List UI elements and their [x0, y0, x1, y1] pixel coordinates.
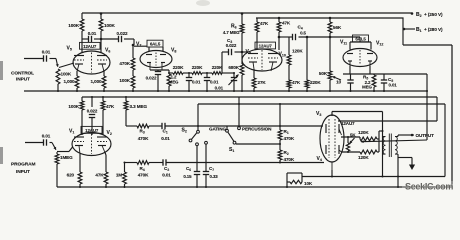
- svg-text:SeekIC.com: SeekIC.com: [405, 182, 453, 192]
- wire secondary top output: [398, 135, 414, 137]
- svg-text:0.01: 0.01: [88, 31, 97, 36]
- capacitor 0.022 program: [89, 97, 95, 135]
- junction bus-307: [306, 90, 308, 92]
- wire S1 out: [236, 143, 280, 145]
- svg-text:0.022: 0.022: [117, 31, 129, 36]
- svg-text:47K: 47K: [95, 173, 104, 178]
- node B1 tap: [403, 28, 415, 31]
- svg-text:680K: 680K: [228, 65, 239, 70]
- node 5K bottom: [347, 151, 349, 153]
- tube 12AU7 V5 V6 envelope: [73, 51, 110, 74]
- wire S2 drop: [197, 104, 199, 130]
- wire V11V12 cathodes: [343, 66, 427, 74]
- svg-text:47K: 47K: [106, 104, 115, 109]
- label B2 supply: [416, 12, 443, 18]
- capacitor 0.01 shunt2: [204, 73, 210, 91]
- svg-text:100K: 100K: [61, 72, 72, 77]
- tube 12AU7 V1 V2 envelope: [72, 133, 111, 156]
- junction bus-384: [383, 90, 385, 92]
- capacitor C5 0.01: [381, 74, 387, 91]
- label 0.01 trimmer: [215, 86, 224, 91]
- label 12AU7 tube1 box: [80, 42, 101, 49]
- label V10: [279, 52, 286, 58]
- capacitor 0.022 coupling: [101, 31, 134, 42]
- resistor R6 4.7MEG: [240, 13, 244, 64]
- svg-text:INPUT: INPUT: [16, 169, 30, 175]
- label 5K: [350, 133, 356, 138]
- junction bus-254: [253, 90, 255, 92]
- label 47K-V10: [282, 21, 291, 26]
- tube V11V12 internals: [347, 50, 373, 66]
- label V3: [316, 111, 321, 117]
- svg-text:+ (280 V): + (280 V): [424, 27, 443, 32]
- svg-text:0.01: 0.01: [389, 83, 398, 88]
- wire R4 row: [125, 162, 138, 164]
- resistor R4 470K: [137, 161, 163, 165]
- label R1: [284, 129, 295, 141]
- label 0.022 program: [87, 109, 98, 114]
- transformer primary winding: [383, 137, 386, 155]
- svg-text:+ (250 V): + (250 V): [424, 12, 443, 17]
- junction bus-207: [206, 90, 208, 92]
- svg-text:0.01: 0.01: [210, 80, 219, 85]
- wire V7V8 plates: [134, 46, 163, 51]
- capacitor 0.01 shunt1: [186, 73, 192, 91]
- switch S1 lever: [228, 132, 234, 141]
- node sec-176: [397, 175, 399, 177]
- svg-text:120K: 120K: [358, 155, 369, 160]
- label 6AL5 tube2 box: [147, 40, 163, 47]
- resistor 47K plate V2: [101, 97, 105, 135]
- junction bus-374: [373, 90, 375, 92]
- contact S1 bottom: [233, 141, 236, 144]
- resistor 100K plate V1: [80, 97, 84, 135]
- svg-text:1,000: 1,000: [64, 79, 76, 84]
- wire feedback row: [302, 176, 445, 178]
- svg-text:47K: 47K: [292, 80, 301, 85]
- label V12: [376, 41, 383, 47]
- label R3: [138, 129, 149, 141]
- label 100K divider: [119, 78, 130, 83]
- label 220K lower: [310, 80, 321, 85]
- label 120K bottom: [358, 155, 369, 160]
- resistor 120K V10: [287, 37, 291, 80]
- wire control input: [24, 58, 44, 60]
- ground: [409, 165, 415, 171]
- resistor 47K lower: [287, 80, 291, 91]
- label 120K top: [358, 130, 369, 135]
- potentiometer 100K control: [56, 59, 60, 92]
- resistor 3.3MEG: [124, 97, 128, 126]
- node fb-332: [331, 175, 333, 177]
- label 47K lower: [292, 80, 301, 85]
- label 1M: [116, 173, 122, 178]
- svg-text:MEG: MEG: [169, 80, 179, 85]
- resistor 120K bottom: [360, 150, 379, 154]
- contact C6 top: [196, 143, 199, 146]
- wire bottom ground bus: [57, 186, 452, 188]
- svg-text:47K: 47K: [282, 21, 291, 26]
- node 10K-bus: [286, 186, 288, 188]
- wire ground branch: [398, 158, 412, 165]
- node C4-330: [329, 36, 332, 39]
- node 470K tap: [132, 44, 135, 47]
- switch S2 top contact: [197, 130, 200, 133]
- tube V5V6 internals: [74, 53, 107, 73]
- junction bus-242: [241, 90, 243, 92]
- label OUTPUT: [416, 133, 435, 138]
- svg-text:100K: 100K: [104, 23, 116, 28]
- wire 120K junction: [379, 131, 383, 152]
- wire program input: [25, 142, 44, 144]
- svg-text:0.022: 0.022: [146, 76, 157, 81]
- resistor 100K plate V5: [80, 13, 84, 53]
- label 50K: [319, 71, 328, 76]
- junction bus-133: [132, 90, 134, 92]
- node R6-C3: [241, 51, 244, 54]
- wire ladder out: [168, 52, 235, 74]
- resistor 220K ladder3: [212, 72, 222, 75]
- divider 470K 100K column: [131, 39, 135, 91]
- svg-text:6AL5: 6AL5: [355, 37, 366, 42]
- svg-text:47K: 47K: [260, 21, 269, 26]
- svg-text:100K: 100K: [68, 104, 79, 109]
- scan smudge left 1: [0, 61, 3, 80]
- label 47K cathode: [95, 173, 104, 178]
- capacitor 0.01 control input: [42, 50, 56, 62]
- label R2: [284, 150, 295, 162]
- svg-text:470K: 470K: [138, 173, 149, 178]
- resistor R1 470K: [278, 104, 282, 150]
- label 0.01 shunt1: [192, 80, 201, 85]
- svg-text:5K: 5K: [350, 133, 356, 138]
- label 100K-V5: [68, 23, 80, 28]
- svg-text:12AU7: 12AU7: [85, 128, 99, 133]
- label 10K: [304, 181, 313, 186]
- capacitor C3 0.022: [222, 49, 248, 55]
- tube V7V8 internals: [146, 53, 166, 71]
- tube V3V4 internals: [326, 119, 342, 170]
- resistor 100K plate V6: [99, 13, 103, 53]
- svg-text:4.7 MEG: 4.7 MEG: [223, 30, 240, 35]
- svg-text:0.022: 0.022: [87, 109, 98, 114]
- label 1000-V5: [64, 79, 76, 84]
- label 1000-V6: [91, 79, 103, 84]
- label 100K-V6: [104, 23, 116, 28]
- potentiometer 5K: [346, 137, 354, 152]
- junction bus-289: [288, 90, 290, 92]
- node R2-row: [279, 161, 281, 163]
- label V8: [171, 48, 176, 54]
- node rail1-242: [241, 12, 244, 15]
- junction bus-189: [188, 90, 190, 92]
- wire subrail wrap to V3 grid: [338, 97, 437, 121]
- wire V4 plate: [341, 151, 360, 153]
- wire S1 feed: [226, 126, 228, 129]
- wire bus1 wrap to 5K: [361, 74, 427, 143]
- svg-text:OUTPUT: OUTPUT: [416, 133, 435, 138]
- resistor 1M grid: [123, 163, 127, 188]
- label GATING: [209, 127, 226, 132]
- svg-text:620: 620: [67, 173, 75, 178]
- svg-text:1M: 1M: [116, 173, 122, 178]
- wire V11V12 plates: [350, 37, 371, 50]
- wire primary left lead: [381, 112, 383, 177]
- wire percussion bus: [198, 103, 445, 105]
- svg-text:0.33: 0.33: [210, 174, 219, 179]
- wire R3 row: [126, 125, 137, 127]
- node C4-307: [306, 36, 309, 39]
- contact S1 top: [226, 129, 229, 132]
- label V7: [136, 41, 141, 47]
- svg-text:MEG: MEG: [362, 85, 372, 90]
- svg-text:470K: 470K: [138, 136, 149, 141]
- tube 12AU7 V9 V10 envelope: [242, 49, 282, 71]
- node B2 tap: [411, 12, 414, 15]
- wire V1 grid: [57, 147, 73, 152]
- svg-text:0.01: 0.01: [162, 173, 171, 178]
- svg-text:10K: 10K: [304, 181, 313, 186]
- label 47K-V9: [260, 21, 269, 26]
- watermark SeekIC.com: [405, 182, 453, 192]
- wire right vertical B-feed: [451, 45, 453, 187]
- svg-text:0.01: 0.01: [192, 80, 201, 85]
- svg-text:10: 10: [336, 80, 341, 85]
- svg-text:0.022: 0.022: [226, 43, 237, 48]
- node rail2-279: [278, 17, 281, 20]
- wire V10 plate: [278, 37, 280, 50]
- wire B+ 280V rail: [256, 18, 403, 45]
- junction bottombus-106: [105, 186, 107, 188]
- svg-text:0.01: 0.01: [42, 134, 51, 139]
- junction bus-158: [157, 90, 159, 92]
- svg-text:12AU7: 12AU7: [341, 121, 355, 126]
- capacitor C1 0.01: [162, 123, 323, 129]
- label C7: [209, 166, 218, 179]
- label 12AU7 tube3 box: [255, 42, 276, 49]
- tube 12AU7 V3 V4 envelope: [320, 115, 344, 162]
- label R4: [138, 166, 149, 178]
- junction bus-234: [233, 90, 235, 92]
- resistor 620 cathode: [78, 154, 82, 187]
- svg-text:470K: 470K: [284, 136, 295, 141]
- label V6: [105, 48, 110, 54]
- resistor 680K: [240, 64, 244, 91]
- node row-280: [279, 125, 281, 127]
- svg-text:0.01: 0.01: [215, 86, 224, 91]
- label 10uF: [336, 80, 341, 85]
- svg-text:0.01: 0.01: [161, 136, 170, 141]
- label C1: [161, 129, 170, 141]
- tube V9V10 internals: [248, 50, 278, 71]
- resistor 47K cathode: [104, 153, 108, 188]
- scan smudge left 2: [0, 147, 3, 164]
- junction bus-104: [103, 90, 105, 92]
- label 100K pot: [61, 72, 72, 77]
- label V1: [69, 129, 74, 135]
- svg-text:PERCUSSION: PERCUSSION: [242, 127, 272, 132]
- capacitor 0.01 program input: [42, 134, 52, 146]
- label 620: [67, 173, 75, 178]
- svg-text:120K: 120K: [292, 49, 303, 54]
- label V2: [107, 130, 112, 136]
- label 220K-1: [173, 65, 184, 70]
- svg-text:220K: 220K: [192, 65, 203, 70]
- potentiometer 50K: [328, 37, 341, 91]
- label 1MEG: [60, 155, 73, 160]
- wire secondary bottom: [397, 154, 399, 187]
- label CONTROL INPUT: [11, 71, 34, 83]
- label C2: [162, 166, 171, 178]
- node bus-427: [426, 90, 428, 92]
- label C6: [183, 166, 192, 179]
- resistor 220K lower: [305, 37, 309, 91]
- label R6: [223, 24, 240, 36]
- node R4row-1M: [123, 161, 125, 163]
- transformer secondary winding: [395, 137, 398, 155]
- label S1: [229, 147, 234, 153]
- label 1.2MEG: [169, 75, 179, 85]
- label C5: [388, 77, 397, 88]
- wire V5 grid: [59, 63, 74, 68]
- capacitor C6 0.15: [194, 146, 200, 187]
- tube 6AL5 V11 V12 envelope: [343, 49, 377, 67]
- label V9: [246, 49, 251, 55]
- node fb-382: [381, 175, 383, 177]
- label R5: [362, 75, 372, 90]
- node subrail-126: [125, 96, 127, 98]
- svg-text:100K: 100K: [119, 78, 130, 83]
- label 680K: [228, 65, 239, 70]
- resistor 1000 cathode V6: [102, 71, 106, 91]
- svg-text:220K: 220K: [310, 80, 321, 85]
- svg-text:120K: 120K: [358, 130, 369, 135]
- trimmer 0.01: [229, 73, 239, 91]
- junction bottombus-197: [196, 186, 198, 188]
- svg-text:12AU7: 12AU7: [259, 44, 273, 49]
- node capsrow-101: [100, 38, 103, 41]
- svg-text:INPUT: INPUT: [16, 77, 30, 83]
- junction bus-77: [76, 90, 78, 92]
- label 3.3MEG: [130, 104, 148, 109]
- resistor 47K plate V10: [277, 18, 281, 37]
- node rail2-330: [329, 17, 332, 20]
- scan smudge top: [196, 0, 210, 6]
- svg-text:3.3 MEG: 3.3 MEG: [130, 104, 148, 109]
- label 47K V2: [106, 104, 115, 109]
- junction bus-350.5: [349, 90, 351, 92]
- wire signal sub-rail: [82, 96, 437, 98]
- svg-text:0.15: 0.15: [183, 174, 192, 179]
- capacitor C2 0.01: [163, 159, 324, 165]
- node subrail-92: [91, 96, 93, 98]
- svg-text:56K: 56K: [333, 25, 342, 30]
- resistor R2 470K: [278, 150, 282, 163]
- svg-text:1,000: 1,000: [91, 79, 103, 84]
- switch S2 lever: [192, 133, 197, 139]
- transformer core: [389, 134, 391, 158]
- tube 6AL5 V7 V8 envelope: [140, 51, 172, 68]
- wire V7V8 cathodes: [150, 70, 169, 73]
- wire percussion wrap down: [444, 104, 446, 177]
- svg-text:220K: 220K: [173, 65, 184, 70]
- resistor 10K: [287, 177, 302, 184]
- svg-text:470K: 470K: [119, 61, 130, 66]
- node C4 left: [278, 36, 281, 39]
- node rail1-101: [100, 12, 103, 15]
- wire V3 plate: [341, 136, 360, 138]
- resistor R5 2.2MEG: [372, 74, 376, 91]
- node output: [411, 134, 414, 137]
- junction bus-330: [329, 90, 331, 92]
- label 12AU7 tube5 box: [81, 126, 102, 133]
- resistor 47K plate V9: [255, 18, 259, 50]
- node S1-280: [279, 143, 281, 145]
- label 27K: [258, 80, 267, 85]
- label C4: [298, 25, 307, 36]
- resistor 1.2MEG: [167, 74, 171, 91]
- capacitor 0.022 cathode: [155, 70, 161, 91]
- junction bottombus-206: [205, 186, 207, 188]
- label PROGRAM INPUT: [11, 162, 35, 176]
- svg-text:100K: 100K: [68, 23, 80, 28]
- label 120K-V10: [292, 49, 303, 54]
- label V4: [317, 156, 322, 162]
- capacitor C4 0.5: [279, 34, 360, 40]
- svg-text:PROGRAM: PROGRAM: [11, 162, 35, 168]
- label 12AU7 tube6: [341, 121, 355, 126]
- svg-text:220K: 220K: [212, 65, 223, 70]
- label 0.022 cathode: [146, 76, 157, 81]
- resistor 27K cathode V9: [252, 69, 256, 91]
- junction bottombus-124.5: [123, 186, 125, 188]
- node sec-bus: [397, 186, 399, 188]
- label 220K-2: [192, 65, 203, 70]
- label 6AL5 tube4 box: [353, 35, 369, 42]
- svg-text:12AU7: 12AU7: [83, 44, 97, 49]
- junction bottombus-80: [79, 186, 81, 188]
- svg-text:0.01: 0.01: [42, 50, 51, 55]
- node subrail-103: [102, 96, 104, 98]
- label 100K V1: [68, 104, 79, 109]
- watermark backdrop: [402, 181, 459, 191]
- label 56K: [333, 25, 342, 30]
- wire 10K loop: [287, 173, 302, 187]
- label 470K divider: [119, 61, 130, 66]
- tube V1V2 internals: [74, 134, 107, 154]
- label PERCUSSION: [242, 127, 272, 132]
- node row-198: [197, 125, 199, 127]
- label V11: [340, 40, 347, 46]
- resistor 220K ladder2: [192, 72, 212, 75]
- svg-text:27K: 27K: [258, 80, 267, 85]
- resistor 120K top: [360, 137, 379, 141]
- svg-text:GATING: GATING: [209, 127, 226, 132]
- wire ground bus: [24, 90, 427, 92]
- resistor 56K: [328, 18, 332, 37]
- svg-text:CONTROL: CONTROL: [11, 71, 34, 77]
- switch S2 free contact: [189, 139, 192, 142]
- potentiometer 1MEG: [52, 143, 59, 188]
- resistor R3 470K: [137, 124, 162, 128]
- capacitor C7 0.33: [203, 144, 209, 187]
- label C3: [226, 38, 237, 48]
- label B1 supply: [416, 27, 443, 33]
- svg-text:6AL5: 6AL5: [150, 42, 161, 47]
- resistor 220K ladder1: [169, 72, 192, 75]
- label S2: [182, 128, 187, 134]
- svg-text:0.5: 0.5: [300, 31, 306, 36]
